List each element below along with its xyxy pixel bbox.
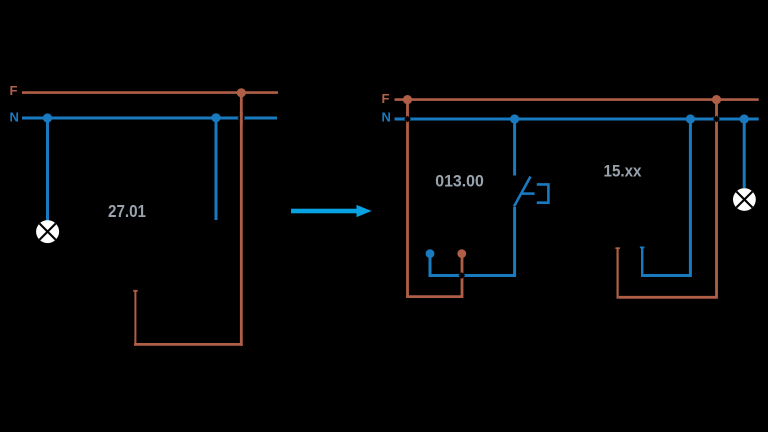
wire blue coil feed of 15.xx xyxy=(643,119,690,276)
wire lamp drop (left circuit) xyxy=(46,118,49,221)
svg-text:F: F xyxy=(10,83,18,98)
svg-text:N: N xyxy=(382,109,391,124)
node coil tap on N (15.xx) xyxy=(686,114,695,123)
wire lamp drop (right circuit) xyxy=(743,119,746,188)
node F tap for 15.xx xyxy=(712,95,721,104)
switch blade of pushbutton xyxy=(514,177,531,207)
wire return riser (left circuit) xyxy=(134,291,136,346)
wire N neutral line (left circuit) xyxy=(22,117,277,120)
wire return bottom run (left circuit) xyxy=(134,343,243,346)
svg-text:F: F xyxy=(382,91,390,106)
terminal tick brown (15.xx) xyxy=(615,247,620,249)
wire brown feed of pushbutton 013.00 xyxy=(408,100,463,297)
arrow (between circuits) xyxy=(291,205,372,217)
crossing hop: F drop over N line (left circuit) xyxy=(238,112,246,124)
node lamp tap on N (left circuit) xyxy=(43,113,52,122)
node F tap for pushbutton (right circuit) xyxy=(403,95,412,104)
node F tap (left circuit) xyxy=(237,88,246,97)
terminal tick of return riser (left circuit) xyxy=(133,290,138,292)
wire switch drop, open ended (left circuit) xyxy=(215,118,218,220)
terminal node brown of 013.00 xyxy=(457,249,466,258)
wire blue from 013.00 terminal to switch contact xyxy=(430,207,515,276)
svg-text:N: N xyxy=(10,109,19,124)
svg-text:013.00: 013.00 xyxy=(435,172,484,191)
wire F phase line (left circuit) xyxy=(22,91,278,94)
svg-text:27.01: 27.01 xyxy=(108,201,146,221)
terminal node blue of 013.00 xyxy=(426,249,435,258)
wire switch upper lead (right circuit) xyxy=(513,119,516,176)
wire N neutral line (right circuit) xyxy=(395,118,759,121)
pushbutton actuator rod xyxy=(522,192,535,195)
lamp E2 (right circuit) xyxy=(733,188,756,211)
pushbutton actuator cap xyxy=(537,184,549,202)
crossing hop: brown feed over blue wire (013.00) xyxy=(458,272,465,279)
node switch-wire tap on N (left circuit) xyxy=(211,113,220,122)
svg-text:15.xx: 15.xx xyxy=(604,162,643,180)
crossing hop: brown F drop over N line (15.xx feed) xyxy=(713,116,720,123)
wire F drop (left circuit) xyxy=(240,93,243,346)
crossing hop: brown F drop over N line (pushbutton feed) xyxy=(404,116,411,123)
wire F phase line (right circuit) xyxy=(395,98,759,101)
node switch tap on N (right circuit) xyxy=(510,114,519,123)
lamp E1 (left circuit) xyxy=(36,220,59,243)
node lamp tap on N (right circuit) xyxy=(740,114,749,123)
wire brown feed of 15.xx xyxy=(619,100,717,298)
terminal tick blue coil (15.xx) xyxy=(640,246,645,248)
